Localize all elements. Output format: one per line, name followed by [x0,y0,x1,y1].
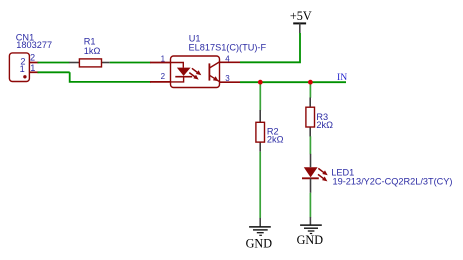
svg-text:1803277: 1803277 [16,40,52,50]
svg-text:GND: GND [297,233,324,247]
U1 phototransistor [209,62,219,82]
CN1 pin 2 stub [29,62,38,64]
ground GND right [297,217,324,247]
wire R1 to U1 pin1 [110,62,151,64]
U1 pin 4 stub [220,61,241,63]
wire U1 pin3 to IN [240,81,346,83]
wire CN1 pin2 to R1 [38,62,70,64]
connector CN1 [9,53,29,82]
svg-text:2: 2 [30,52,35,62]
diode LED1 [302,154,319,193]
resistor R1 [69,59,110,67]
svg-text:+5V: +5V [290,9,312,23]
svg-text:GND: GND [246,237,273,251]
resistor R2 [256,110,265,152]
wire CN1 pin1 segment [38,71,70,73]
svg-text:IN: IN [337,72,347,83]
svg-text:EL817S1(C)(TU)-F: EL817S1(C)(TU)-F [189,42,267,52]
svg-text:4: 4 [225,54,230,63]
LED1 emission arrow b [318,174,327,181]
U1 pin 2 stub [150,81,171,83]
LED1 emission arrow a [318,168,327,175]
U1 light arrow b [189,73,198,80]
junction node at R2 [258,80,263,85]
+5V power symbol [290,9,312,33]
wire LED1 to GND [309,193,311,218]
wire U1 pin4 to +5V [240,33,300,62]
opto-coupler U1 [150,56,240,88]
U1 light arrow a [192,68,201,75]
svg-text:2: 2 [161,72,166,81]
CN1 pin 1 stub [29,71,38,73]
wire junction to R2 [259,82,261,110]
svg-text:2kΩ: 2kΩ [267,135,284,145]
U1 internal LED [171,63,184,68]
svg-text:1: 1 [161,55,166,64]
U1 body box [171,56,220,88]
U1 pin 1 stub [150,62,171,64]
U1 pin 3 stub [220,81,241,83]
ground GND left [246,218,273,251]
svg-text:1: 1 [20,64,25,74]
svg-text:2kΩ: 2kΩ [316,120,333,130]
wire vertical jog [70,72,151,82]
svg-text:1kΩ: 1kΩ [84,46,101,56]
wire junction to R3 [309,82,311,98]
svg-text:3: 3 [225,74,230,83]
svg-text:1: 1 [30,63,35,73]
wire R2 to GND [259,152,261,219]
resistor R3 [306,98,315,137]
wire R3 to LED1 [309,136,311,154]
svg-text:19-213/Y2C-CQ2R2L/3T(CY): 19-213/Y2C-CQ2R2L/3T(CY) [333,176,453,186]
junction node at R3 [308,80,313,85]
